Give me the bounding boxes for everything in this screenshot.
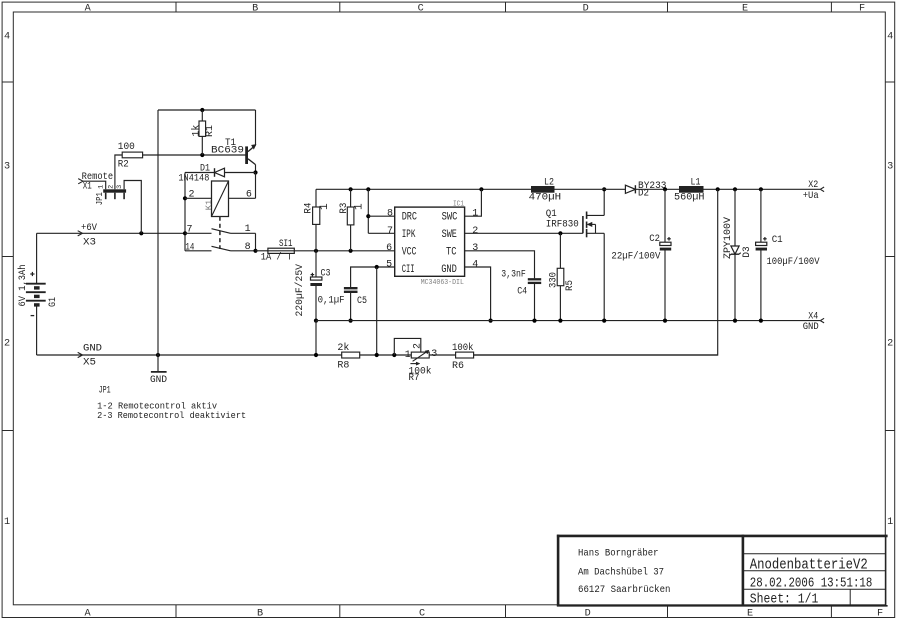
- svg-text:SI1: SI1: [279, 238, 293, 250]
- svg-text:MC34063-DIL: MC34063-DIL: [421, 279, 465, 287]
- wire bottom GND line from battery to feedback corner: [37, 354, 718, 356]
- connector X4 GND: [803, 311, 824, 334]
- wire feedback riser (output to divider): [474, 189, 718, 355]
- svg-text:1A / T: 1A / T: [261, 252, 293, 264]
- svg-text:6: 6: [386, 243, 392, 254]
- svg-text:R7: R7: [409, 372, 420, 384]
- svg-text:C2: C2: [649, 233, 660, 245]
- junction top rail / R1 top: [200, 108, 204, 112]
- wire top rail L2 to D2: [555, 188, 626, 190]
- svg-text:7: 7: [187, 224, 193, 235]
- ground symbol GND: [150, 355, 167, 386]
- transistor T1 BC639: [211, 137, 256, 165]
- jumper JP1: [94, 185, 126, 205]
- svg-text:28.02.2006 13:51:18: 28.02.2006 13:51:18: [750, 577, 873, 592]
- svg-text:+6V: +6V: [81, 222, 98, 234]
- svg-text:L1: L1: [691, 177, 701, 189]
- junction riser / DRC pin 8 wire: [366, 214, 370, 218]
- svg-text:100: 100: [118, 141, 135, 153]
- svg-text:SWC: SWC: [442, 212, 458, 224]
- svg-text:JP1: JP1: [94, 192, 105, 205]
- svg-text:GND: GND: [83, 342, 102, 354]
- svg-text:8: 8: [387, 208, 393, 219]
- junction C1 / inner gnd rail: [759, 319, 763, 323]
- svg-text:3,3nF: 3,3nF: [501, 269, 526, 281]
- capacitor C2 22uF/100V: [611, 189, 671, 320]
- svg-text:1: 1: [4, 517, 10, 528]
- resistor R6 100k: [452, 342, 474, 372]
- junction base wire / R1 bottom: [200, 153, 204, 157]
- junction Q1 source / inner gnd rail: [602, 319, 606, 323]
- svg-text:Hans Borngräber: Hans Borngräber: [578, 548, 659, 560]
- wire CII riser down to divider node: [376, 267, 378, 355]
- junction CII wire / feedback riser: [375, 265, 379, 269]
- svg-text:F: F: [859, 4, 865, 15]
- junction divider node / pot branch: [392, 353, 396, 357]
- svg-text:470µH: 470µH: [529, 192, 562, 204]
- junction VCC line / R3-C5 column: [349, 249, 353, 253]
- svg-text:GND: GND: [441, 264, 457, 276]
- junction top rail / R3 top: [349, 187, 353, 191]
- wire pin 1 SWC riser to top rail: [465, 189, 482, 216]
- transistor Q1 IRF830 (MOSFET): [546, 208, 604, 238]
- wire switch node to fuse: [256, 250, 268, 252]
- svg-text:1: 1: [319, 203, 331, 210]
- svg-text:22µF/100V: 22µF/100V: [611, 250, 661, 262]
- wire output rail L1 to X2: [704, 188, 821, 190]
- svg-text:A: A: [85, 4, 92, 15]
- svg-text:E: E: [747, 609, 753, 620]
- svg-text:7: 7: [387, 226, 393, 237]
- wire pin 3 TC to C4: [465, 251, 535, 279]
- wire top power rail (R4 to L2): [316, 188, 531, 190]
- resistor R3 1: [338, 189, 366, 251]
- svg-text:GND: GND: [150, 374, 167, 386]
- resistor R5 330: [548, 233, 576, 320]
- wire pin 8 DRC: [368, 215, 394, 217]
- svg-text:C1: C1: [772, 234, 783, 246]
- junction relay-left vertical / coil pin 2: [183, 196, 187, 200]
- wire T1 emitter to top rail: [255, 110, 257, 145]
- wire VCC line fuse to IC1: [294, 250, 394, 252]
- connector X2 +Ua: [803, 179, 824, 202]
- svg-text:R1: R1: [204, 125, 216, 137]
- wire Q1 source to inner gnd rail: [603, 233, 605, 320]
- wire +6V rail from battery to relay column: [37, 232, 185, 234]
- junction GND line / ground symbol: [156, 353, 160, 357]
- svg-text:3: 3: [4, 162, 10, 173]
- svg-text:330: 330: [548, 272, 560, 288]
- connector X3 +6V: [78, 222, 98, 249]
- svg-text:3: 3: [472, 243, 478, 254]
- svg-text:R5: R5: [564, 280, 576, 291]
- wire T1 collector down to D1 node: [255, 165, 257, 173]
- wire pin 2 SWE to Q1 gate: [465, 232, 583, 234]
- svg-text:Sheet: 1/1: Sheet: 1/1: [750, 591, 819, 607]
- wire JP1 pin2 up to R2: [115, 155, 122, 189]
- svg-text:+Ua: +Ua: [803, 190, 819, 202]
- svg-text:BC639: BC639: [211, 145, 244, 157]
- junction SWE wire / R5 top: [558, 231, 562, 235]
- svg-text:C: C: [419, 609, 425, 620]
- svg-text:66127 Saarbrücken: 66127 Saarbrücken: [578, 584, 671, 596]
- relay actuation dashed link: [219, 217, 221, 250]
- svg-text:3: 3: [116, 185, 124, 189]
- svg-text:B: B: [252, 4, 258, 15]
- junction output rail / C1: [759, 187, 763, 191]
- svg-text:2: 2: [472, 226, 478, 237]
- svg-text:4: 4: [887, 32, 893, 43]
- svg-text:R3: R3: [338, 203, 350, 214]
- svg-text:2: 2: [107, 185, 115, 189]
- junction IC gnd riser / inner gnd rail: [489, 319, 493, 323]
- junction C4 / inner gnd rail: [532, 319, 536, 323]
- wire JP1 pin3 to +6V rail: [124, 181, 141, 234]
- svg-text:560µH: 560µH: [674, 192, 705, 204]
- svg-text:A: A: [85, 609, 92, 620]
- svg-text:8: 8: [245, 242, 251, 253]
- svg-text:2-3 Remotecontrol deaktiviert: 2-3 Remotecontrol deaktiviert: [97, 410, 246, 421]
- svg-text:C: C: [418, 4, 424, 15]
- svg-text:IPK: IPK: [402, 229, 416, 241]
- relay K1 coil: [185, 181, 256, 217]
- junction C3 column / inner gnd rail: [314, 319, 318, 323]
- wire gnd link C3 column down to bottom line: [315, 321, 317, 355]
- svg-text:K1: K1: [205, 200, 214, 210]
- junction top rail / Q1 drain: [602, 187, 606, 191]
- svg-text:2: 2: [189, 189, 195, 200]
- svg-text:D: D: [585, 609, 591, 620]
- battery G1: [17, 233, 59, 355]
- junction C2 / inner gnd rail: [663, 319, 667, 323]
- svg-text:1: 1: [98, 185, 106, 189]
- svg-text:X3: X3: [83, 236, 96, 248]
- wire pin 4 GND riser: [465, 267, 491, 321]
- junction top rail / C2: [663, 187, 667, 191]
- relay contact pole 14-8: [185, 242, 256, 253]
- svg-text:C3: C3: [321, 268, 331, 280]
- svg-text:5: 5: [386, 259, 392, 270]
- svg-text:2: 2: [4, 339, 10, 350]
- junction CII riser / divider node: [375, 353, 379, 357]
- relay contact pole 7-1: [185, 224, 256, 235]
- svg-text:E: E: [742, 4, 748, 15]
- svg-text:1: 1: [887, 517, 893, 528]
- svg-text:4: 4: [472, 259, 478, 270]
- resistor R4 1: [303, 189, 332, 251]
- svg-text:1: 1: [354, 203, 366, 210]
- diode D2 BY233: [625, 180, 666, 200]
- svg-text:JP1: JP1: [99, 384, 111, 396]
- capacitor C4 3,3nF: [501, 269, 541, 321]
- wire pin 7 IPK: [368, 232, 394, 234]
- wire pole1 output down to pole2 node: [255, 233, 257, 251]
- capacitor C1 100uF/100V: [756, 189, 820, 320]
- svg-text:AnodenbatterieV2: AnodenbatterieV2: [750, 557, 868, 574]
- resistor R8 2k: [337, 342, 359, 372]
- wire DRC-IPK riser: [367, 189, 369, 233]
- inductor L2 470uH: [529, 177, 562, 204]
- wire emitter top rail: [158, 109, 256, 111]
- junction D1 anode / collector node: [253, 170, 257, 174]
- svg-text:IC1: IC1: [453, 200, 464, 208]
- wire R2 to T1 base: [143, 154, 247, 156]
- inductor L1 560uH: [674, 177, 705, 204]
- junction output rail / feedback riser: [716, 187, 720, 191]
- svg-text:1: 1: [472, 208, 478, 219]
- svg-text:D3: D3: [741, 246, 753, 257]
- junction switch output node: [253, 249, 257, 253]
- svg-text:X5: X5: [83, 356, 96, 368]
- svg-text:DRC: DRC: [402, 212, 418, 224]
- svg-text:1N4148: 1N4148: [178, 173, 209, 185]
- svg-text:IRF830: IRF830: [546, 218, 579, 230]
- capacitor C3 220uF/25V: [294, 251, 331, 321]
- capacitor C5 0,1uF: [318, 288, 367, 320]
- title block: [557, 535, 888, 608]
- svg-text:F: F: [877, 609, 883, 620]
- resistor R1 1k: [190, 110, 216, 155]
- junction relay-left vertical / +6V row: [183, 231, 187, 235]
- svg-text:TC: TC: [446, 247, 457, 259]
- wire pin 5 CII to C5: [351, 267, 395, 287]
- junction +6V / JP1 pin3 riser: [139, 231, 143, 235]
- svg-text:3: 3: [887, 162, 893, 173]
- svg-text:R6: R6: [452, 360, 464, 372]
- diode D1 1N4148: [178, 162, 255, 184]
- svg-text:2: 2: [412, 343, 423, 349]
- junction top rail / SWC riser: [479, 187, 483, 191]
- junction top rail / DRC-IPK riser: [366, 187, 370, 191]
- svg-text:CII: CII: [402, 264, 415, 276]
- note JP1 legend: [97, 384, 246, 421]
- svg-text:VCC: VCC: [402, 247, 417, 259]
- svg-text:100µF/100V: 100µF/100V: [767, 256, 821, 268]
- junction R5 / inner gnd rail: [558, 319, 562, 323]
- svg-text:1k: 1k: [190, 125, 202, 137]
- fuse SI1 1A/T: [261, 238, 295, 263]
- junction D3 / inner gnd rail: [733, 319, 737, 323]
- svg-text:0,1µF: 0,1µF: [318, 295, 345, 307]
- connector X5 GND: [78, 342, 102, 368]
- svg-text:1: 1: [245, 224, 251, 235]
- svg-text:220µF/25V: 220µF/25V: [294, 264, 306, 317]
- svg-text:GND: GND: [803, 321, 819, 333]
- potentiometer R7 100k: [394, 338, 437, 384]
- wire relay-left vertical (D1 cathode to pin14 row): [184, 173, 186, 251]
- svg-text:2: 2: [887, 339, 893, 350]
- svg-text:100k: 100k: [452, 342, 474, 354]
- svg-text:X1: X1: [83, 180, 92, 192]
- svg-text:R8: R8: [337, 360, 349, 372]
- svg-text:ZPY100V: ZPY100V: [722, 216, 734, 259]
- svg-text:D: D: [583, 4, 589, 15]
- resistor R2 100: [118, 141, 143, 171]
- svg-text:14: 14: [185, 242, 194, 253]
- wire left ground vertical: [157, 110, 159, 355]
- junction C5 / inner gnd rail: [349, 319, 353, 323]
- wire coil pin6 riser to collector node: [255, 173, 257, 199]
- wire X1 Remote to JP1 pin 1: [83, 181, 106, 189]
- svg-text:C5: C5: [357, 295, 367, 307]
- svg-text:L2: L2: [544, 177, 554, 189]
- svg-text:2k: 2k: [337, 342, 349, 354]
- junction gnd link / bottom line: [314, 353, 318, 357]
- wire top rail D2 to L1: [635, 188, 679, 190]
- junction output rail / D3: [733, 187, 737, 191]
- op-amp IC1 MC34063 (converter IC): [395, 200, 465, 287]
- wire Q1 drain to top rail: [603, 189, 605, 215]
- svg-text:C4: C4: [517, 286, 527, 298]
- junction VCC line / C3-R4 column: [314, 249, 318, 253]
- svg-text:B: B: [257, 609, 263, 620]
- diode D3 ZPY100V (zener): [722, 189, 753, 320]
- svg-text:R4: R4: [303, 203, 315, 214]
- svg-text:Am Dachshübel 37: Am Dachshübel 37: [578, 567, 664, 579]
- svg-text:R2: R2: [118, 158, 129, 170]
- svg-text:1: 1: [405, 350, 411, 361]
- svg-text:4: 4: [4, 32, 10, 43]
- connector X1 Remote: [78, 171, 113, 193]
- svg-text:6: 6: [246, 189, 252, 200]
- svg-text:3: 3: [431, 349, 437, 360]
- svg-text:SWE: SWE: [442, 229, 458, 241]
- svg-text:6V 1,3Ah: 6V 1,3Ah: [17, 265, 29, 307]
- svg-text:G1: G1: [48, 297, 59, 307]
- wire inner gnd rail: [316, 320, 820, 322]
